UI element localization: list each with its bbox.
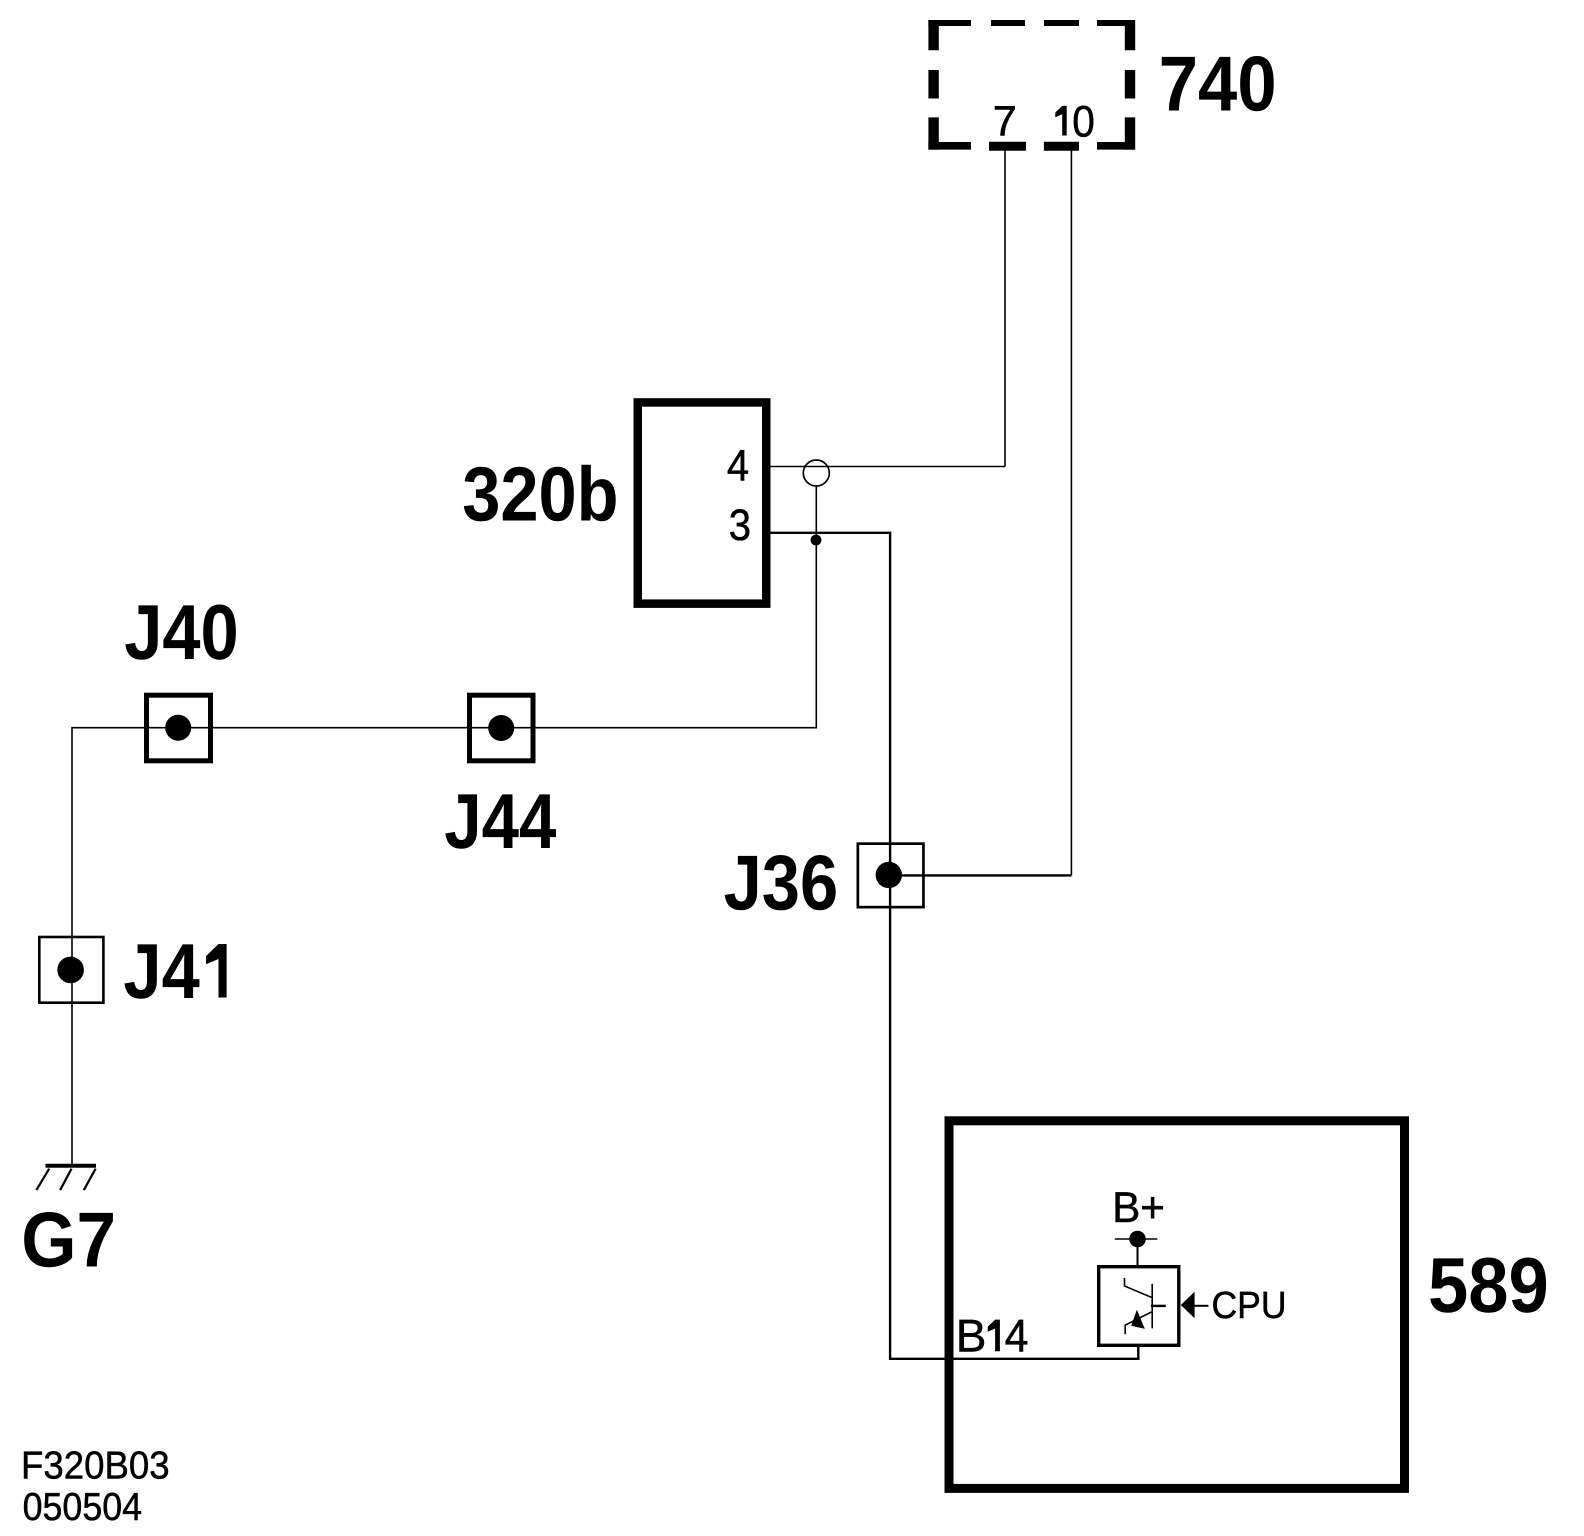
svg-text:589: 589 — [1428, 1241, 1549, 1329]
svg-text:J44: J44 — [444, 777, 556, 865]
svg-text:4: 4 — [1005, 1309, 1029, 1361]
svg-text:4: 4 — [727, 442, 749, 491]
svg-text:320b: 320b — [462, 451, 618, 537]
svg-text:3: 3 — [729, 501, 751, 550]
svg-text:F320B03: F320B03 — [21, 1445, 170, 1488]
svg-text:G7: G7 — [21, 1196, 116, 1284]
svg-text:7: 7 — [993, 98, 1017, 145]
svg-text:740: 740 — [1159, 40, 1277, 128]
svg-text:050504: 050504 — [23, 1486, 142, 1529]
svg-text:J40: J40 — [124, 588, 239, 676]
svg-text:J4: J4 — [123, 927, 199, 1015]
svg-text:0: 0 — [1072, 98, 1095, 147]
svg-text:B+: B+ — [1112, 1184, 1165, 1232]
svg-text:B: B — [956, 1309, 987, 1361]
svg-text:J36: J36 — [724, 838, 839, 926]
svg-text:CPU: CPU — [1212, 1285, 1287, 1327]
